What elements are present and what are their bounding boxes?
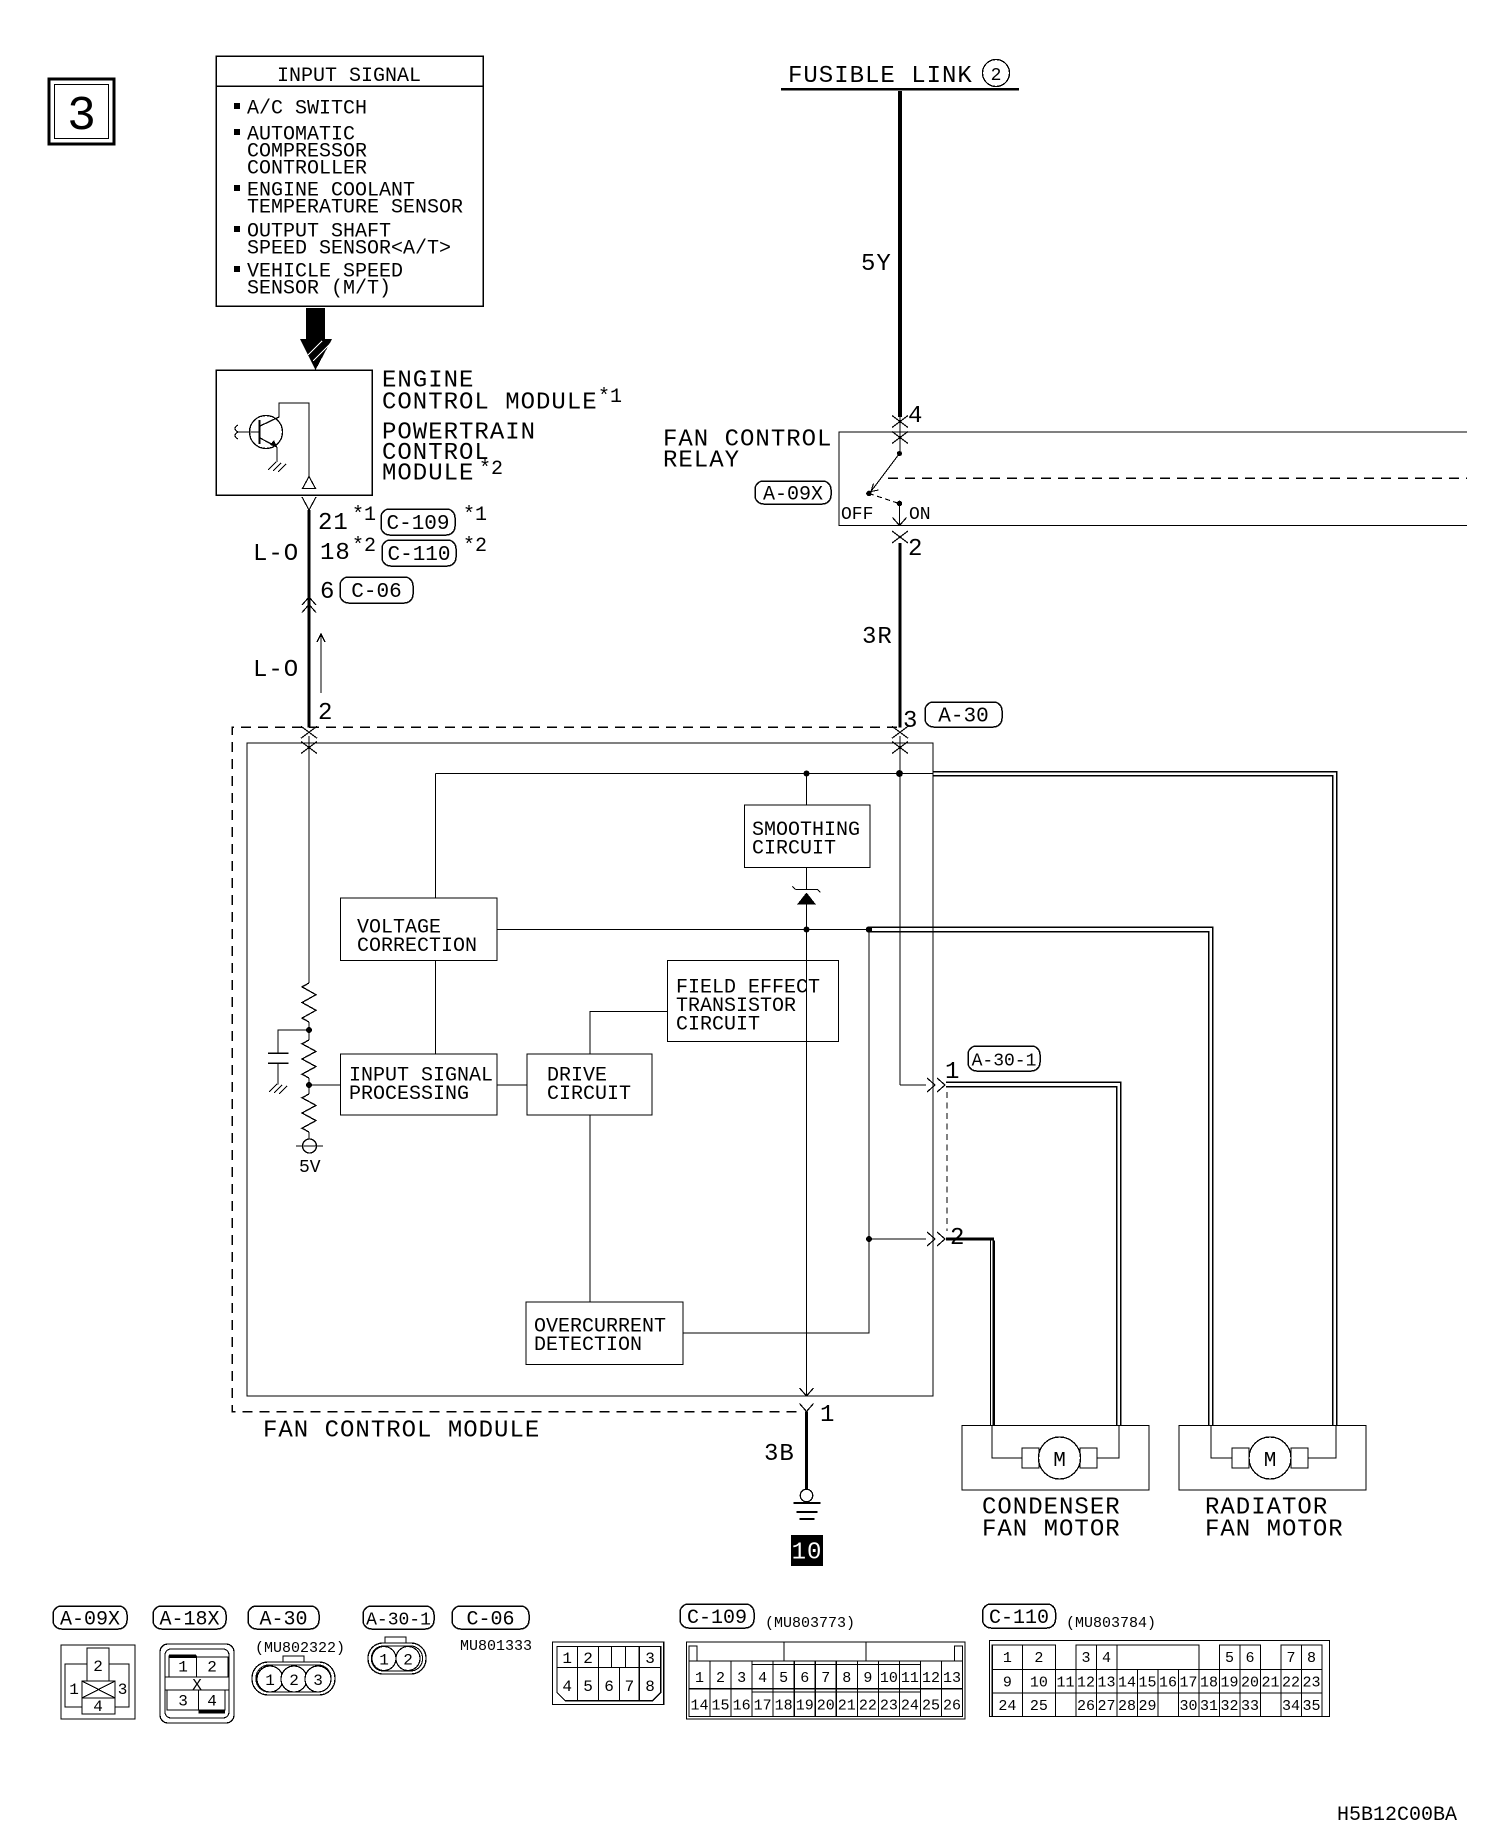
arrow input signal to ECM — [300, 308, 332, 370]
svg-text:17: 17 — [1180, 1675, 1198, 1692]
svg-text:12: 12 — [922, 1670, 940, 1687]
svg-text:A-30: A-30 — [259, 1609, 307, 1632]
svg-text:4: 4 — [207, 1693, 217, 1711]
junction overcurrent column / pin2 wire — [866, 1236, 872, 1242]
svg-text:26: 26 — [943, 1698, 961, 1715]
svg-text:24: 24 — [901, 1698, 919, 1715]
wire drive to FET — [590, 1012, 668, 1055]
svg-text:7: 7 — [821, 1670, 830, 1687]
svg-text:4: 4 — [908, 403, 923, 430]
svg-text:C-110: C-110 — [387, 544, 450, 567]
svg-text:CIRCUIT: CIRCUIT — [547, 1083, 631, 1106]
svg-text:9: 9 — [863, 1670, 872, 1687]
svg-text:4: 4 — [93, 1698, 103, 1716]
wire ISP to drive — [497, 1084, 527, 1086]
wire 5Y (thick) — [898, 91, 902, 417]
junction 3R / top bus — [896, 770, 903, 777]
radiator fan motor box — [1179, 1426, 1366, 1491]
svg-text:5: 5 — [1225, 1650, 1234, 1667]
svg-text:21: 21 — [318, 510, 349, 537]
svg-text:14: 14 — [1118, 1675, 1136, 1692]
connector pill A-30 bottom — [248, 1606, 319, 1629]
connector drawing C-110 — [990, 1641, 1330, 1717]
double wire top bus to radiator fan — [933, 772, 1337, 1426]
fan control module inner box — [247, 743, 933, 1396]
voltage correction box — [341, 898, 498, 961]
svg-text:9: 9 — [1003, 1675, 1012, 1692]
svg-text:SPEED SENSOR<A/T>: SPEED SENSOR<A/T> — [247, 238, 451, 261]
pin 2 A-30-1 — [869, 1238, 926, 1240]
svg-text:1: 1 — [265, 1672, 275, 1690]
relay switch — [897, 451, 902, 456]
zener diode below smoothing — [806, 868, 808, 890]
svg-text:22: 22 — [1282, 1675, 1300, 1692]
double wire pin1 to condenser fan — [946, 1082, 1121, 1425]
svg-text:A/C SWITCH: A/C SWITCH — [247, 98, 367, 121]
svg-text:3: 3 — [903, 708, 918, 735]
svg-text:M: M — [1264, 1450, 1277, 1473]
connector pill C-110 bottom — [983, 1604, 1056, 1628]
svg-text:32: 32 — [1221, 1698, 1239, 1715]
svg-text:4: 4 — [1102, 1650, 1111, 1667]
svg-text:11: 11 — [901, 1670, 919, 1687]
svg-text:A-30-1: A-30-1 — [972, 1052, 1037, 1072]
svg-text:*2: *2 — [352, 535, 376, 558]
svg-text:3: 3 — [313, 1672, 323, 1690]
svg-text:34: 34 — [1282, 1698, 1300, 1715]
connector drawing A-18X — [160, 1644, 234, 1723]
svg-text:X: X — [192, 1677, 202, 1695]
pin 1 A-30-1 — [900, 1084, 926, 1086]
svg-text:1: 1 — [562, 1650, 572, 1668]
svg-text:23: 23 — [880, 1698, 898, 1715]
svg-text:CONTROL MODULE: CONTROL MODULE — [382, 390, 598, 417]
motor M radiator — [1249, 1437, 1291, 1479]
connector drawing C-109 — [687, 1642, 966, 1719]
svg-text:A-09X: A-09X — [60, 1609, 120, 1632]
svg-text:3: 3 — [67, 90, 96, 144]
svg-text:29: 29 — [1139, 1698, 1157, 1715]
svg-text:27: 27 — [1098, 1698, 1116, 1715]
svg-text:C-06: C-06 — [466, 1609, 514, 1632]
svg-text:H5B12C00BA: H5B12C00BA — [1337, 1804, 1457, 1827]
svg-text:3: 3 — [1082, 1650, 1091, 1667]
wire to voltage correction — [435, 774, 437, 899]
svg-text:2: 2 — [207, 1659, 217, 1677]
svg-text:1: 1 — [1003, 1650, 1012, 1667]
svg-text:23: 23 — [1303, 1675, 1321, 1692]
svg-text:TEMPERATURE SENSOR: TEMPERATURE SENSOR — [247, 197, 463, 220]
svg-text:30: 30 — [1180, 1698, 1198, 1715]
svg-text:5: 5 — [583, 1678, 593, 1696]
svg-text:18: 18 — [775, 1698, 793, 1715]
svg-text:1: 1 — [178, 1659, 188, 1677]
svg-text:2: 2 — [583, 1650, 593, 1668]
svg-text:35: 35 — [1303, 1698, 1321, 1715]
svg-text:18: 18 — [320, 540, 351, 567]
svg-text:10: 10 — [1030, 1675, 1048, 1692]
connector pill A-30-1 top — [968, 1046, 1040, 1071]
relay pin 4 crossings — [892, 416, 908, 428]
ground under capacitor — [269, 1084, 287, 1094]
svg-text:16: 16 — [733, 1698, 751, 1715]
svg-text:L-O: L-O — [253, 541, 299, 568]
connector pill C-06 — [340, 577, 413, 603]
svg-text:3R: 3R — [862, 624, 893, 651]
svg-text:6: 6 — [800, 1670, 809, 1687]
svg-text:18: 18 — [1200, 1675, 1218, 1692]
svg-text:13: 13 — [1098, 1675, 1116, 1692]
ground symbol — [800, 1489, 812, 1501]
resistor R1 — [302, 983, 316, 1022]
relay pin 2 — [892, 531, 908, 543]
svg-text:3: 3 — [737, 1670, 746, 1687]
svg-text:21: 21 — [838, 1698, 856, 1715]
ground inside ECM — [268, 462, 286, 472]
wire mid bus — [497, 929, 869, 931]
wire overcurrent to right column — [683, 930, 869, 1334]
svg-text:2: 2 — [908, 536, 923, 563]
svg-text:C-06: C-06 — [351, 581, 401, 604]
svg-text:31: 31 — [1200, 1698, 1218, 1715]
svg-text:L-O: L-O — [253, 657, 299, 684]
connector drawing C-06 — [552, 1642, 663, 1705]
svg-text:7: 7 — [625, 1678, 635, 1696]
svg-text:28: 28 — [1118, 1698, 1136, 1715]
svg-text:15: 15 — [712, 1698, 730, 1715]
svg-text:ON: ON — [909, 505, 931, 525]
svg-text:1: 1 — [379, 1652, 389, 1670]
svg-text:6: 6 — [320, 579, 335, 606]
svg-text:10: 10 — [792, 1540, 823, 1567]
svg-text:A-18X: A-18X — [159, 1609, 219, 1632]
svg-text:*1: *1 — [352, 504, 376, 527]
svg-text:2: 2 — [403, 1652, 413, 1670]
resistor R3 — [308, 1085, 310, 1094]
svg-text:RELAY: RELAY — [663, 448, 740, 475]
connector pill C-109 — [381, 509, 455, 535]
svg-text:MU801333: MU801333 — [460, 1638, 532, 1655]
svg-text:6: 6 — [604, 1678, 614, 1696]
svg-text:CORRECTION: CORRECTION — [357, 935, 477, 958]
svg-text:21: 21 — [1262, 1675, 1280, 1692]
svg-text:12: 12 — [1077, 1675, 1095, 1692]
direction arrow up — [320, 635, 322, 693]
input signal processing box — [341, 1054, 498, 1115]
junction R1/R2/C1 — [306, 1027, 312, 1033]
transistor Q1 inside ECM — [250, 416, 283, 449]
svg-text:C-109: C-109 — [386, 513, 449, 536]
connector drawing A-30-1 — [385, 1637, 406, 1643]
input signal list — [234, 103, 240, 109]
junction mid bus / overcurrent column — [866, 926, 872, 932]
svg-text:FUSIBLE LINK: FUSIBLE LINK — [788, 63, 973, 90]
svg-text:2: 2 — [716, 1670, 725, 1687]
svg-text:3: 3 — [118, 1681, 128, 1699]
junction smoothing / top bus — [804, 771, 810, 777]
svg-text:(MU803773): (MU803773) — [765, 1615, 855, 1632]
condenser fan motor box — [962, 1426, 1149, 1491]
svg-text:33: 33 — [1241, 1698, 1259, 1715]
svg-text:20: 20 — [817, 1698, 835, 1715]
svg-text:MODULE: MODULE — [382, 461, 474, 488]
svg-text:17: 17 — [754, 1698, 772, 1715]
connector pill A-09X bottom — [53, 1606, 127, 1629]
connector drawing A-30 — [283, 1656, 304, 1662]
svg-text:3: 3 — [645, 1650, 655, 1668]
svg-text:6: 6 — [1246, 1650, 1255, 1667]
svg-text:4: 4 — [758, 1670, 767, 1687]
svg-text:DETECTION: DETECTION — [534, 1334, 642, 1357]
INPUT SIGNAL box — [216, 56, 483, 306]
svg-text:22: 22 — [859, 1698, 877, 1715]
in-line connector C-06 chevrons on wire — [302, 597, 316, 605]
fan control relay box — [839, 432, 1467, 526]
double wire mid bus to radiator fan — [869, 927, 1213, 1425]
drive circuit box — [527, 1054, 652, 1115]
connector pill A-30-1 bottom — [363, 1606, 434, 1629]
svg-text:FAN MOTOR: FAN MOTOR — [1205, 1517, 1344, 1544]
ECM / PCM box — [216, 370, 372, 495]
connector drawing A-09X — [61, 1645, 135, 1719]
wire top bus — [436, 773, 934, 775]
fan control module outer dashed box — [232, 727, 897, 1411]
svg-text:INPUT SIGNAL: INPUT SIGNAL — [277, 65, 421, 88]
svg-text:19: 19 — [796, 1698, 814, 1715]
wire L-O from ECM (thick) — [308, 510, 311, 728]
ground reference box 10 — [791, 1535, 823, 1566]
svg-text:(MU803784): (MU803784) — [1066, 1615, 1156, 1632]
connector pill C-110 — [382, 540, 456, 566]
svg-text:25: 25 — [922, 1698, 940, 1715]
svg-text:*1: *1 — [598, 386, 622, 409]
svg-text:13: 13 — [943, 1670, 961, 1687]
svg-text:FAN MOTOR: FAN MOTOR — [982, 1517, 1121, 1544]
overcurrent detection box — [526, 1302, 683, 1365]
svg-text:8: 8 — [842, 1670, 851, 1687]
wire voltage correction to input signal processing — [435, 961, 437, 1055]
svg-text:16: 16 — [1159, 1675, 1177, 1692]
svg-text:2: 2 — [289, 1672, 299, 1690]
junction mid bus / FET column — [804, 927, 810, 933]
svg-text:25: 25 — [1030, 1698, 1048, 1715]
svg-text:OFF: OFF — [841, 505, 873, 525]
resistor R2 — [308, 1030, 310, 1040]
svg-text:A-30: A-30 — [938, 706, 988, 729]
page number box 3 — [49, 79, 114, 144]
connector pill A-18X bottom — [153, 1606, 226, 1629]
svg-text:2: 2 — [93, 1658, 103, 1676]
wire from pin 2 down — [308, 736, 310, 983]
svg-text:4: 4 — [562, 1678, 572, 1696]
svg-text:3B: 3B — [764, 1441, 795, 1468]
svg-text:CIRCUIT: CIRCUIT — [752, 837, 836, 860]
svg-text:15: 15 — [1139, 1675, 1157, 1692]
connector pill C-06 bottom — [452, 1606, 529, 1629]
svg-text:1: 1 — [695, 1670, 704, 1687]
svg-text:26: 26 — [1077, 1698, 1095, 1715]
wire 3B (thick) — [805, 1412, 808, 1490]
capacitor C1 branch — [278, 1030, 309, 1053]
module boundary crossings right — [892, 726, 908, 738]
ECM pin fork — [302, 497, 316, 510]
svg-text:5V: 5V — [299, 1158, 321, 1178]
svg-text:FAN CONTROL MODULE: FAN CONTROL MODULE — [263, 1418, 540, 1445]
svg-text:SENSOR (M/T): SENSOR (M/T) — [247, 278, 391, 301]
wire 3R (thick) — [898, 543, 901, 728]
connector pill A-30 top — [925, 702, 1002, 727]
svg-text:1: 1 — [820, 1402, 835, 1429]
svg-text:2: 2 — [318, 700, 333, 727]
module pin 1 exit — [800, 1388, 814, 1396]
output triangle — [303, 477, 316, 489]
dashed connector line A-30-1 — [946, 1092, 948, 1231]
module boundary crossings left — [301, 726, 317, 738]
connector pill A-09X — [755, 481, 831, 504]
svg-text:11: 11 — [1057, 1675, 1075, 1692]
field effect transistor circuit box — [806, 930, 808, 1397]
svg-text:(MU802322): (MU802322) — [255, 1640, 345, 1657]
5V supply terminal — [303, 1139, 317, 1153]
svg-text:PROCESSING: PROCESSING — [349, 1083, 469, 1106]
double wire pin2 to condenser fan — [990, 1239, 992, 1426]
svg-text:24: 24 — [998, 1698, 1016, 1715]
svg-text:2: 2 — [991, 66, 1002, 86]
svg-text:*1: *1 — [463, 504, 487, 527]
svg-text:CIRCUIT: CIRCUIT — [676, 1013, 760, 1036]
svg-text:C-110: C-110 — [989, 1607, 1049, 1630]
svg-text:14: 14 — [691, 1698, 709, 1715]
wire drive to overcurrent — [589, 1115, 591, 1302]
motor M condenser — [1039, 1437, 1081, 1479]
svg-text:A-30-1: A-30-1 — [366, 1611, 431, 1631]
svg-text:*2: *2 — [463, 535, 487, 558]
svg-text:7: 7 — [1287, 1650, 1296, 1667]
svg-text:19: 19 — [1221, 1675, 1239, 1692]
smoothing circuit box — [806, 774, 808, 806]
svg-text:8: 8 — [645, 1678, 655, 1696]
connector pill C-109 bottom — [680, 1604, 754, 1628]
svg-text:C-109: C-109 — [687, 1607, 747, 1630]
svg-text:5: 5 — [779, 1670, 788, 1687]
wire 3R inside module — [899, 736, 901, 1085]
svg-text:A-09X: A-09X — [763, 484, 823, 507]
svg-text:5Y: 5Y — [861, 251, 892, 278]
junction R2/R3/ISP — [306, 1082, 312, 1088]
svg-text:1: 1 — [69, 1681, 79, 1699]
svg-text:10: 10 — [880, 1670, 898, 1687]
svg-text:*2: *2 — [479, 458, 503, 481]
svg-text:M: M — [1053, 1450, 1066, 1473]
svg-text:3: 3 — [178, 1693, 188, 1711]
svg-text:CONTROLLER: CONTROLLER — [247, 158, 367, 181]
svg-text:20: 20 — [1241, 1675, 1259, 1692]
svg-text:2: 2 — [1034, 1650, 1043, 1667]
svg-text:8: 8 — [1307, 1650, 1316, 1667]
